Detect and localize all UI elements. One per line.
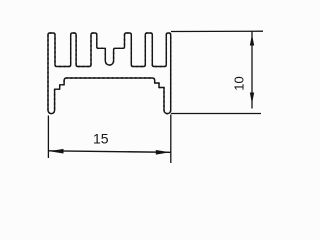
vertical dimension line bbox=[251, 31, 253, 108]
right extension line bbox=[170, 115, 172, 164]
right arrow bbox=[156, 150, 170, 155]
bottom arrow bbox=[250, 93, 254, 104]
bottom extension line bbox=[171, 113, 261, 115]
outline dark stipple overlay bbox=[48, 33, 171, 114]
dimension line bbox=[48, 151, 170, 153]
left extension line bbox=[47, 116, 49, 159]
top arrow bbox=[250, 35, 254, 46]
heatsink profile outline bbox=[48, 33, 171, 114]
svg-text:15: 15 bbox=[93, 131, 109, 147]
svg-text:10: 10 bbox=[232, 76, 247, 90]
left arrow bbox=[49, 149, 63, 154]
top extension line bbox=[171, 30, 263, 32]
